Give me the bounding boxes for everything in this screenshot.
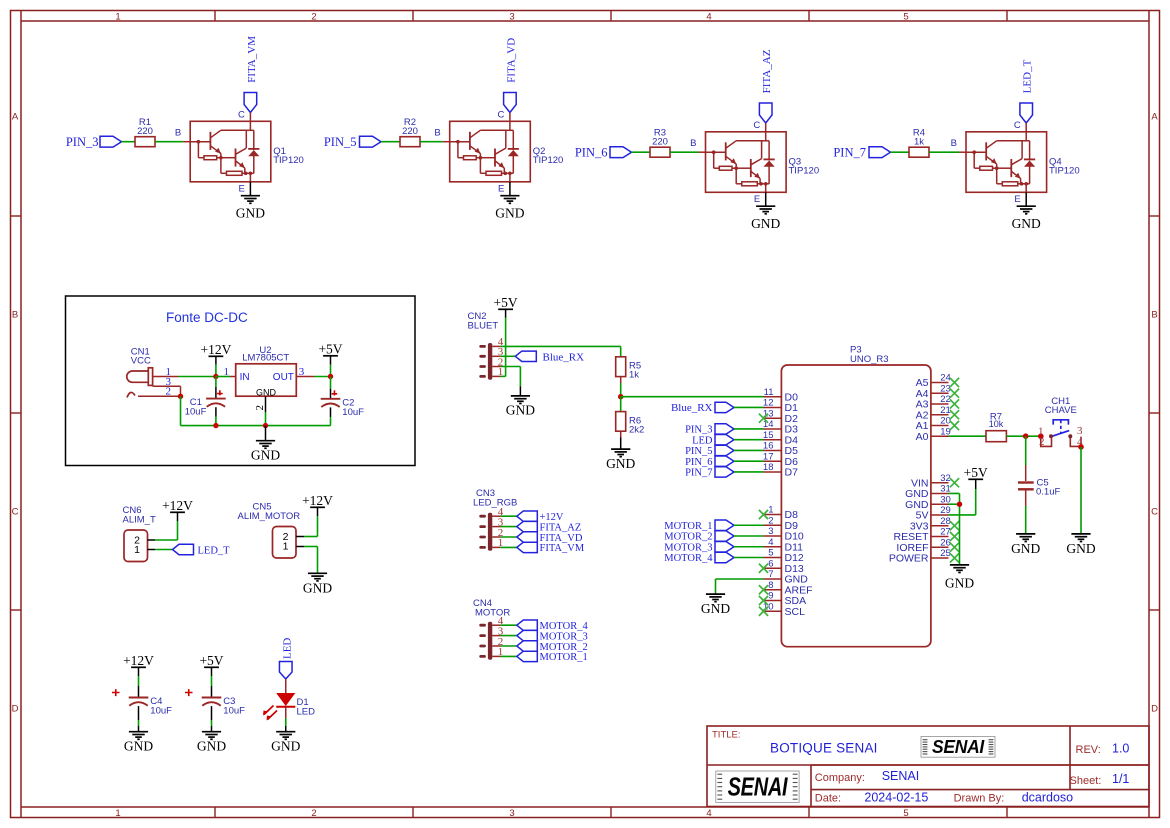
svg-text:2: 2 [1039,436,1045,448]
svg-text:2: 2 [311,808,316,819]
junction node +12V/C1/U2-IN [213,374,218,379]
svg-text:ALIM_T: ALIM_T [123,514,156,525]
wire CN2 pin4 to R5 [501,346,621,356]
power +5V (fonte output) [318,341,342,376]
P3 right pin 31 GND [905,484,951,500]
flag PIN_3 [66,135,122,149]
svg-text:2: 2 [768,515,773,526]
ground below C3 [197,732,226,754]
svg-text:+12V: +12V [540,512,564,523]
svg-text:ALIM_MOTOR: ALIM_MOTOR [238,511,301,522]
frame row labels right [1151,111,1158,714]
wire node down to C5 [1025,436,1027,481]
svg-text:10uF: 10uF [223,706,245,717]
wire Q4 emitter to ground [1014,192,1026,206]
wire +12V node down to C1 [215,377,217,399]
svg-text:3: 3 [509,11,514,22]
wire CN1 pin2 down to ground rail [178,394,183,426]
P3 left pin 12 D1 [763,398,798,414]
ground below C5 [1011,534,1040,556]
svg-text:GND: GND [751,216,780,231]
regulator U2 LM7805CT [236,345,297,397]
svg-text:MOTOR: MOTOR [475,607,510,618]
flag MOTOR_3 at CN4 [501,630,588,642]
ground below CN2 [506,396,535,418]
title block title text BOTIQUE SENAI [770,741,878,756]
svg-text:SENAI: SENAI [728,772,788,801]
svg-text:FITA_VM: FITA_VM [246,36,258,83]
svg-text:TITLE:: TITLE: [712,730,741,741]
U2 GND pin 2 wire [254,396,266,425]
power +12V (fonte input) [200,342,231,377]
resistor R6 2k2 [616,412,645,436]
wire CH1 pin4 to ground [1080,447,1082,534]
transistor Q2 TIP120 [450,121,564,182]
net flag FITA_VD [504,38,518,113]
svg-text:12: 12 [763,398,774,409]
svg-text:1/1: 1/1 [1112,772,1129,786]
svg-text:+5V: +5V [964,465,988,480]
svg-text:GND: GND [701,601,730,616]
svg-text:TIP120: TIP120 [533,155,564,166]
svg-text:1.0: 1.0 [1112,742,1129,756]
P3 right pin 26 IOREF [896,537,950,553]
svg-text:11: 11 [764,387,774,398]
svg-text:B: B [175,128,181,139]
svg-text:B: B [1151,309,1157,320]
svg-text:4: 4 [706,11,711,22]
svg-text:220: 220 [402,126,418,137]
flag MOTOR_1 into P3 D9 [664,520,763,532]
wire Q2 emitter to ground [498,182,510,196]
resistor R2 220 [400,117,420,147]
svg-text:20: 20 [940,416,951,427]
ground rail wire in fonte [181,425,331,427]
ground below C4 [124,732,153,754]
wire CN6 pin2 to +12V [155,521,178,540]
wire PIN_5 to R2 [381,141,400,143]
P3 left pin 2 D9 [764,515,799,531]
svg-text:FITA_VD: FITA_VD [540,533,583,544]
ground below Q4 [1012,206,1041,231]
net flag LED above D1 [279,638,293,679]
connector CN1 VCC barrel jack [127,346,181,397]
svg-text:21: 21 [940,405,951,416]
wire R3 to Q3 base [670,138,706,152]
power +12V at CN6 [162,498,193,521]
svg-text:7: 7 [768,569,773,580]
svg-text:TIP120: TIP120 [1049,165,1080,176]
resistor R7 10k [986,412,1006,442]
P3 right pin 24 A5 [916,373,951,389]
svg-text:2024-02-15: 2024-02-15 [864,790,928,804]
capacitor C1 10uF [185,390,226,417]
svg-text:22: 22 [940,394,951,405]
svg-text:LM7805CT: LM7805CT [242,352,289,363]
svg-text:FITA_VM: FITA_VM [540,543,585,554]
flag PIN_5 [324,135,381,149]
flag MOTOR_2 at CN4 [501,641,588,653]
svg-text:BOTIQUE SENAI: BOTIQUE SENAI [770,741,878,756]
svg-text:9: 9 [768,591,773,602]
svg-text:LED: LED [281,638,293,659]
svg-text:5: 5 [903,11,908,22]
flag Blue_RX into P3 D1 [671,402,764,414]
connector CN5 ALIM_MOTOR [238,502,305,558]
svg-text:GND: GND [1011,541,1040,556]
svg-text:MOTOR_3: MOTOR_3 [664,542,712,553]
power +12V above C4 [123,653,154,697]
svg-text:2: 2 [166,386,172,398]
ground below P3 right [945,565,974,591]
svg-text:PIN_5: PIN_5 [324,135,357,149]
svg-text:1k: 1k [629,369,639,380]
connector CN2 BLUET [468,311,504,380]
svg-text:MOTOR_2: MOTOR_2 [664,532,712,543]
svg-text:1: 1 [134,544,140,556]
P3 right pin 21 A2 [916,405,951,421]
svg-text:Fonte DC-DC: Fonte DC-DC [166,310,248,325]
SENAI logo bottom-left cell [716,771,799,802]
P3 left pin 17 D6 [763,451,798,467]
svg-text:27: 27 [940,527,951,538]
svg-text:GND: GND [506,403,535,418]
flag MOTOR_4 at CN4 [501,620,589,632]
resistor R3 220 [650,128,670,158]
wire P3 pin7 GND to ground [716,579,764,594]
junction C1 on ground rail [213,423,218,428]
P3 left pin 7 GND [764,569,809,585]
transistor Q3 TIP120 [706,132,820,193]
wire LED_T to Q4 collector [1014,120,1026,132]
svg-text:IN: IN [240,372,250,383]
wire CN5 pin2 to +12V [304,516,318,537]
junction node +5V/C2 [328,374,333,379]
svg-text:PIN_7: PIN_7 [685,468,712,479]
svg-text:SCL: SCL [785,606,806,618]
mcu P3 UNO_R3 body [781,345,931,647]
svg-text:FITA_AZ: FITA_AZ [761,49,773,93]
junction at CH1 pin1 [1038,433,1044,439]
svg-text:+5V: +5V [318,341,342,356]
svg-text:E: E [1014,194,1020,205]
svg-text:26: 26 [940,537,951,548]
svg-text:POWER: POWER [889,553,929,565]
capacitor C5 0.1uF [1018,478,1060,498]
ground below CN5 [303,573,332,595]
svg-text:3: 3 [509,808,514,819]
connector CN3 LED_RGB [473,488,517,551]
wire FITA_AZ to Q3 collector [753,120,765,132]
svg-text:D: D [12,703,19,714]
svg-text:Company:: Company: [815,772,865,784]
frame column labels bottom [115,808,908,819]
net flag FITA_VM [244,36,258,113]
P3 left pin 9 SDA [764,591,807,607]
svg-text:E: E [754,194,760,205]
ground below CH1 [1066,534,1095,556]
svg-text:25: 25 [940,548,951,559]
switch CH1 CHAVE [1038,396,1083,448]
svg-text:SENAI: SENAI [932,737,985,757]
wire Q1 emitter to ground [239,182,251,196]
svg-text:4: 4 [768,537,773,548]
wire R1 to Q1 base [155,128,190,142]
wire PIN_7 to R4 [891,151,910,153]
wire Q3 emitter to ground [754,192,766,206]
P3 right pin 27 RESET [893,527,950,543]
no-connect marks on P3 right pins [950,378,959,563]
ground below Q1 [236,196,265,221]
resistor R5 1k [616,357,641,381]
wire R7 to switch [1006,435,1040,437]
P3 right pin 19 A0 [916,426,951,442]
svg-text:GND: GND [124,739,153,754]
capacitor C4 10uF [112,689,172,716]
svg-text:C: C [1151,506,1158,517]
svg-text:1: 1 [224,366,230,378]
svg-text:2: 2 [311,11,316,22]
svg-text:E: E [498,183,504,194]
flag Blue_RX at CN2 pin3 [501,351,585,363]
P3 right pin 25 POWER [889,548,951,564]
flag PIN_3 into P3 D3 [685,424,763,436]
svg-text:GND: GND [197,739,226,754]
svg-text:10uF: 10uF [185,407,207,418]
wire FITA_VM to Q1 collector [238,109,250,121]
svg-text:GND: GND [256,387,277,397]
svg-text:5: 5 [768,548,773,559]
flag MOTOR_1 at CN4 [501,651,588,663]
frame row labels left [12,111,19,714]
flag PIN_5 into P3 D5 [685,445,763,457]
svg-text:+12V: +12V [123,653,154,668]
svg-text:Drawn By:: Drawn By: [954,792,1005,804]
svg-text:32: 32 [940,473,951,484]
svg-text:1: 1 [283,541,289,553]
svg-text:1k: 1k [914,137,924,148]
resistor R1 220 [135,117,155,147]
svg-text:BLUET: BLUET [468,320,499,331]
P3 left pin 14 D3 [763,419,798,435]
svg-text:MOTOR_1: MOTOR_1 [664,521,712,532]
wire FITA_VD to Q2 collector [498,109,510,121]
svg-text:A: A [12,111,19,122]
wire CN1 pin1 to +12V node [178,376,216,378]
connector CN6 ALIM_T [123,505,156,561]
title block REV [1076,742,1130,756]
ground below Q2 [495,196,524,221]
wire C4 to ground [138,706,140,732]
flag FITA_VM at CN3 [501,542,585,554]
svg-text:GND: GND [251,448,280,463]
wire U2 OUT pin 3 to +5V node [296,366,330,378]
svg-text:MOTOR_2: MOTOR_2 [540,642,588,653]
svg-text:REV:: REV: [1076,744,1101,756]
wire divider node to R6 [620,397,622,412]
svg-text:FITA_VD: FITA_VD [505,38,517,83]
transistor Q4 TIP120 [966,132,1080,193]
wire P3 GND pins 31/30 to ground [949,493,960,564]
power +12V at CN5 [302,493,333,516]
svg-text:6: 6 [768,558,773,569]
title block Sheet [1070,772,1130,787]
wire C5 to ground [1025,491,1027,534]
Fonte DC-DC enclosure box [66,296,416,466]
svg-text:GND: GND [945,576,974,591]
P3 right pin 29 5V [916,505,951,521]
wire CN5 pin1 to ground [304,547,318,574]
svg-text:TIP120: TIP120 [273,155,304,166]
connector CN4 MOTOR [473,598,510,660]
svg-text:16: 16 [763,441,774,452]
power +5V at P3 pin29 [949,465,989,515]
svg-text:VCC: VCC [131,355,151,366]
wire +12V node to U2 IN pin 1 [216,366,236,378]
ground below P3 pin7 [701,594,730,616]
svg-text:B: B [951,138,957,149]
svg-text:OUT: OUT [273,372,294,383]
svg-text:10uF: 10uF [342,407,364,418]
svg-text:dcardoso: dcardoso [1022,790,1073,804]
frame column labels top [115,11,908,22]
svg-text:LED: LED [297,706,316,717]
svg-text:GND: GND [236,205,265,220]
svg-text:15: 15 [763,430,774,441]
wire PIN_6 to R3 [632,151,651,153]
ground below D1 [271,732,300,754]
svg-text:PIN_6: PIN_6 [685,457,712,468]
svg-text:SENAI: SENAI [882,769,920,783]
wire CN2 pin2 to ground [501,367,521,396]
svg-text:PIN_6: PIN_6 [575,145,608,159]
P3 right pin 20 A1 [916,416,951,432]
svg-text:GND: GND [1012,216,1041,231]
P3 left pin 10 SCL [763,601,805,617]
svg-text:5: 5 [903,808,908,819]
P3 left pin 5 D12 [764,548,804,564]
P3 left pin 6 D13 [764,558,804,574]
flag LED into P3 D4 [692,435,763,447]
svg-text:GND: GND [303,580,332,595]
capacitor C2 10uF [321,390,364,417]
P3 left pin 13 D2 [763,408,798,424]
svg-text:1: 1 [115,11,120,22]
title block TITLE label [712,730,741,741]
junction U2 GND on ground rail [263,423,268,428]
svg-text:PIN_7: PIN_7 [833,145,866,159]
wire P3 A0 pin19 to R7 [949,435,987,437]
flag +12V at CN3 [501,511,564,523]
P3 left pin 3 D10 [764,526,804,542]
svg-text:TIP120: TIP120 [789,165,820,176]
wire R2 to Q2 base [420,128,450,142]
P3 right pin 30 GND [905,494,951,510]
wire C2 to ground rail [330,407,332,425]
wire R6 to ground [620,431,622,449]
capacitor C3 10uF [185,689,245,716]
wire C3 to ground [211,706,213,732]
resistor R4 1k [909,128,929,158]
svg-text:C: C [1014,120,1021,131]
no-connect marks on P3 left pins [759,414,768,616]
svg-text:C: C [12,506,19,517]
svg-text:A: A [1151,111,1158,122]
junction divider node R5/R6 [618,394,623,399]
svg-text:LED: LED [692,435,713,446]
P3 left pin 16 D5 [763,441,798,457]
svg-text:MOTOR_3: MOTOR_3 [540,631,588,642]
svg-text:220: 220 [652,137,668,148]
svg-text:B: B [690,138,696,149]
svg-text:FITA_AZ: FITA_AZ [540,522,582,533]
svg-text:2: 2 [254,405,266,411]
svg-text:Blue_RX: Blue_RX [671,402,713,414]
svg-text:23: 23 [940,383,951,394]
P3 left pin 15 D4 [763,430,798,446]
flag MOTOR_4 into P3 D12 [664,552,763,564]
svg-text:GND: GND [271,739,300,754]
power +5V above CN2 [494,295,518,318]
P3 left pin 18 D7 [763,462,798,478]
svg-text:3: 3 [299,366,305,378]
svg-text:GND: GND [606,456,635,471]
svg-text:D: D [1151,703,1158,714]
wire R4 to Q4 base [929,138,966,152]
svg-text:GND: GND [1066,541,1095,556]
P3 right pin 28 3V3 [910,516,951,532]
svg-text:D7: D7 [785,467,799,479]
svg-text:GND: GND [495,205,524,220]
svg-text:10k: 10k [989,419,1004,429]
svg-text:C: C [498,109,505,120]
svg-text:4: 4 [706,808,711,819]
svg-text:220: 220 [137,126,153,137]
svg-text:MOTOR_1: MOTOR_1 [540,652,588,663]
flag MOTOR_2 into P3 D10 [664,531,763,543]
svg-text:PIN_5: PIN_5 [685,446,712,457]
P3 right pin 32 VIN [911,473,951,489]
svg-text:Sheet:: Sheet: [1070,775,1102,787]
svg-text:17: 17 [763,451,774,462]
wire C1 to ground rail [215,407,217,425]
svg-text:24: 24 [940,373,951,384]
ground below R6 [606,449,635,471]
title block Date and Drawn By [815,790,1073,804]
svg-text:8: 8 [768,580,773,591]
svg-text:+12V: +12V [200,342,231,357]
flag PIN_6 [575,145,632,159]
flag FITA_AZ at CN3 [501,521,582,533]
svg-text:+5V: +5V [494,295,518,310]
svg-text:18: 18 [763,462,774,473]
svg-text:A0: A0 [916,431,929,443]
svg-text:0.1uF: 0.1uF [1036,487,1060,498]
P3 right pin 23 A4 [916,383,951,399]
svg-text:14: 14 [763,419,774,430]
svg-text:+12V: +12V [302,493,333,508]
svg-text:28: 28 [940,516,951,527]
flag MOTOR_3 into P3 D11 [664,542,763,554]
svg-text:10uF: 10uF [150,706,172,717]
ground symbol of fonte [251,426,280,463]
flag FITA_VD at CN3 [501,532,583,544]
flag PIN_7 [833,145,890,159]
svg-text:Blue_RX: Blue_RX [543,352,585,364]
junction P3 pin30 GND [957,502,962,507]
svg-text:MOTOR_4: MOTOR_4 [540,621,589,632]
P3 left pin 8 AREF [764,580,813,596]
